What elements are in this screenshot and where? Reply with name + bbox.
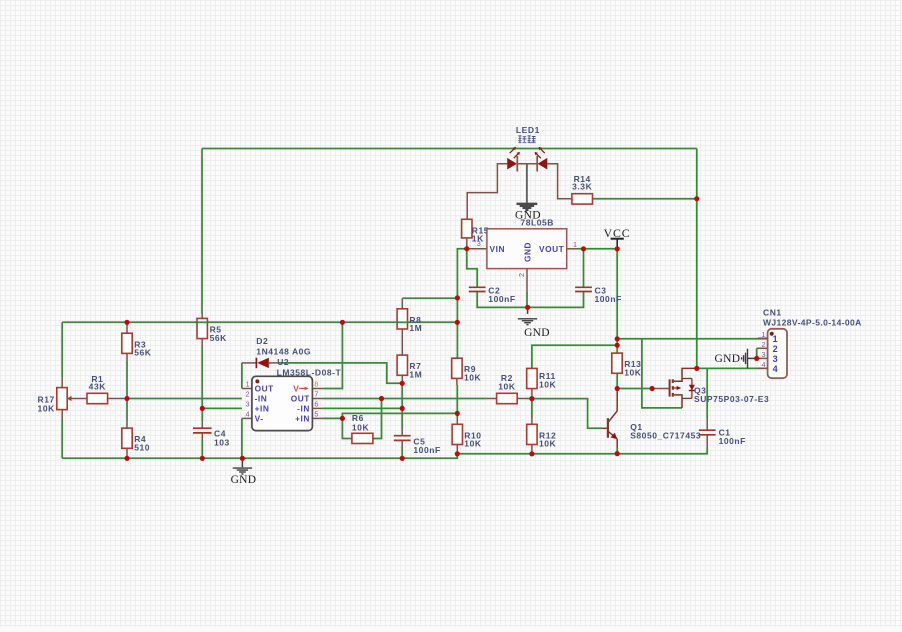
wire: ground stub under U2 (241, 458, 243, 467)
svg-text:VOUT: VOUT (539, 244, 564, 254)
wire: R14 right to loop junction (593, 198, 697, 200)
wire: gate row to Q3 gate (617, 388, 652, 390)
ground symbol under U2 (233, 467, 252, 469)
wire: R7 node down to C5 node (401, 383, 403, 408)
svg-text:1M: 1M (409, 323, 422, 333)
connector CN1 body (768, 329, 787, 378)
svg-text:WJ128V-4P-5.0-14-00A: WJ128V-4P-5.0-14-00A (763, 318, 862, 328)
CN1 pin4 stub (758, 367, 768, 369)
svg-text:VCC: VCC (604, 226, 631, 240)
svg-text:56K: 56K (210, 333, 228, 343)
pin: R1 right pin to node (108, 398, 128, 400)
svg-text:D2: D2 (256, 336, 268, 346)
resistor R13 (612, 353, 622, 373)
svg-text:56K: 56K (134, 348, 152, 358)
svg-text:2: 2 (517, 272, 526, 277)
wire: C1 top from drain row (706, 368, 708, 419)
wire: D2 anode line to R7 bottom node (242, 362, 257, 364)
VCC symbol (611, 238, 624, 240)
wire: U2 pin7 OUT row to R2 (312, 398, 322, 400)
ground symbol under regulator rail (518, 318, 537, 320)
svg-text:10K: 10K (38, 404, 56, 414)
wire: C4 column node down to C4 and rail (201, 408, 203, 421)
resistor R5 (197, 318, 207, 338)
svg-text:3: 3 (477, 239, 482, 248)
svg-text:GND: GND (714, 353, 740, 365)
resistor R7 (397, 355, 407, 375)
svg-text:1: 1 (246, 380, 251, 389)
wire: R8 top to R9 column (401, 298, 403, 309)
resistor R3 (122, 333, 132, 353)
wire: U2 pin4 V- down to ground rail (242, 417, 252, 419)
svg-text:+IN: +IN (295, 413, 310, 423)
svg-text:LED1: LED1 (516, 125, 540, 135)
wire: R6 node jog up and row to R9/R10 node (342, 413, 457, 418)
wire: R15 bottom pin to VIN node (466, 238, 468, 249)
Q3 body diode (682, 378, 692, 380)
svg-text:4: 4 (246, 410, 251, 419)
pin: R1 left pin with wiper arrow to R17 (71, 398, 87, 400)
svg-text:8: 8 (314, 380, 319, 389)
wire: VCC node down to R13 top (616, 345, 618, 353)
wire: U2 pin8 V+ up to top bus (312, 388, 322, 390)
wire: left rail bottom (R17 to bottom rail) (61, 410, 63, 420)
svg-text:-IN: -IN (297, 403, 310, 413)
capacitor C3 (575, 286, 592, 288)
wire: Q1 emitter to bottom rail (616, 439, 618, 448)
wire: bottom rail right segment to C1 (457, 447, 707, 454)
CN1 pin1 stub (758, 337, 768, 339)
resistor R10 (452, 424, 462, 444)
pin: R3 top/bottom pins (126, 322, 128, 333)
resistor R15 (462, 219, 472, 238)
capacitor C4 (193, 427, 212, 429)
resistor R12 (527, 424, 537, 444)
wire: mid row from R1 node to U2 pin2 (127, 398, 242, 400)
wire: VIN node branch to C2 top (467, 249, 477, 288)
wire: R5 bottom to C4 column (201, 339, 203, 345)
svg-text:VIN: VIN (490, 244, 505, 254)
wire: battery loop top (202,148.5)-(696.8,148.5) (202, 148, 697, 150)
resistor R6 (352, 433, 373, 443)
svg-text:5: 5 (314, 410, 319, 419)
LED1 right emission arrows (539, 148, 545, 154)
resistor R11 (527, 368, 537, 388)
svg-text:GND: GND (523, 242, 533, 262)
svg-text:U2: U2 (277, 357, 289, 367)
svg-text:10K: 10K (464, 373, 482, 383)
wire: loop left vertical down to R5 (201, 149, 203, 314)
wire: top bus crossing R5 box (redraw) (196, 321, 210, 323)
svg-text:7: 7 (314, 390, 319, 399)
wire: left rail top (bus to R17) (61, 322, 63, 377)
ground symbol at CN1 (rotated) (747, 349, 749, 368)
svg-text:10K: 10K (464, 439, 482, 449)
wire: VCC rail vertical x=617 (616, 249, 618, 345)
svg-text:GND: GND (231, 474, 257, 486)
resistor R1 (87, 393, 108, 403)
svg-text:103: 103 (214, 437, 230, 447)
pin: U1 VIN pin stub (pin 3) (467, 248, 487, 250)
capacitor C1 (699, 429, 716, 431)
wire: VCC symbol stub (616, 239, 618, 249)
pin: R11 bottom pin (531, 389, 533, 399)
svg-text:2: 2 (773, 344, 779, 354)
wire: LED1 common cathode to GND stub (526, 164, 528, 204)
svg-text:10K: 10K (539, 439, 557, 449)
svg-text:OUT: OUT (291, 393, 310, 403)
capacitor C5 (394, 435, 411, 437)
wire: U2 pin5 row to R6 node (312, 417, 322, 419)
wire: top bus crossing R8 box (redraw) (397, 321, 409, 323)
transistor Q3 SUP75P03 (P-MOSFET) gate bar (669, 379, 671, 396)
svg-text:100nF: 100nF (595, 294, 622, 304)
wire: R6 right leg up to OUT row (373, 399, 382, 439)
svg-text:GND: GND (515, 209, 541, 221)
svg-text:10K: 10K (498, 382, 516, 392)
pin: R8-R7 connecting link (401, 329, 403, 355)
wire: R3 bottom to mid node (126, 361, 128, 399)
svg-text:2: 2 (246, 390, 251, 399)
wire: LED1 right anode to R14 left (547, 164, 572, 199)
capacitor C2 (469, 286, 486, 288)
junction dots (124, 320, 129, 325)
svg-text:10K: 10K (352, 423, 370, 433)
Q3 drain connection (674, 368, 697, 381)
U2 orientation dot (255, 379, 259, 383)
svg-text:V: V (293, 383, 299, 393)
wire: R13 bottom to gate node (616, 373, 618, 388)
voltage regulator U1 78L05B body (487, 229, 567, 269)
svg-text:LM358L-D08-T: LM358L-D08-T (277, 368, 342, 378)
wire: bottom rail left segment (62, 454, 457, 459)
wire: node down to R12, R12 to rail (531, 399, 533, 418)
pin: R2 pins (487, 398, 497, 400)
Q3 channel segments (672, 379, 674, 383)
pin: Q1 collector vertical (616, 389, 618, 411)
resistor R14 (572, 194, 593, 204)
wire: loop right vertical down to Q3 drain node (696, 149, 698, 369)
svg-text:1N4148 A0G: 1N4148 A0G (256, 346, 311, 356)
wire: R6 left leg (342, 418, 352, 438)
pin: CN1 pin2 hook to GND dot (757, 347, 768, 349)
label LED1 chinese value (glyph boxes) (518, 136, 535, 143)
wire: C5 node down through C5 to rail (401, 408, 403, 429)
svg-text:1: 1 (573, 240, 578, 249)
pin: U1 VOUT pin stub (pin 1) and wire to VCC (567, 248, 578, 250)
wire: LED1 left anode to R15 (467, 164, 507, 220)
svg-text:100nF: 100nF (719, 436, 746, 446)
wire: node down to R4, R4 bottom to rail (126, 399, 128, 422)
wire: C2 bottom / GND / C3 bottom rail (477, 292, 583, 308)
svg-text:+IN: +IN (255, 403, 270, 413)
wire: U2 pin1 up to D2 cathode (242, 388, 252, 390)
wire: top supply bus y=322.3 (62, 321, 457, 323)
pin: CN1 pin3 stub (757, 357, 768, 359)
wire: R2/R11 node to Q1 base (532, 399, 602, 429)
svg-text:2: 2 (761, 340, 766, 349)
svg-text:-IN: -IN (255, 393, 268, 403)
svg-text:V-: V- (255, 413, 264, 423)
ground symbol under LED1 (517, 203, 538, 205)
svg-text:3: 3 (773, 354, 779, 364)
wire: C3 top to VOUT row (583, 249, 585, 287)
svg-text:510: 510 (134, 443, 150, 453)
wire: R9/R10 node to R10, R10 to rail (456, 413, 458, 418)
diode D2 1N4148 (255, 358, 257, 369)
svg-text:4: 4 (773, 364, 779, 374)
transistor Q1 S8050 (NPN) (607, 418, 609, 438)
svg-text:100nF: 100nF (488, 294, 515, 304)
svg-text:GND: GND (524, 327, 550, 339)
svg-text:43K: 43K (89, 382, 107, 392)
resistor R4 (122, 428, 132, 448)
pin: R9 bottom to row node (456, 378, 458, 385)
wire: VCC node to CN1 pin1 (617, 338, 758, 340)
op-amp U2 LM358 body (252, 376, 313, 430)
wire: branch down x=641.9 to Q3 source bottom (642, 339, 682, 408)
svg-text:S8050_C717453: S8050_C717453 (630, 431, 701, 441)
svg-text:SUP75P03-07-E3: SUP75P03-07-E3 (694, 394, 769, 404)
svg-text:OUT: OUT (255, 383, 274, 393)
wire: +IN row from C4 node to U2 pin3 (202, 407, 242, 409)
svg-text:CN1: CN1 (763, 308, 782, 318)
CN1 orientation dot (770, 332, 774, 336)
pin: U1 GND pin 2 vertical (526, 269, 528, 292)
svg-text:1: 1 (761, 330, 766, 339)
svg-text:3: 3 (761, 350, 766, 359)
svg-text:10K: 10K (539, 379, 557, 389)
wire: U2 pin6 row to C5 node (312, 407, 322, 409)
resistor R2 (497, 393, 518, 403)
Q3 source connection (674, 395, 682, 408)
wire: VIN node left + long vertical to R9 top (457, 249, 466, 359)
LED1 cathode connector (517, 163, 537, 165)
svg-text:4: 4 (761, 360, 766, 369)
LED1 right diode (538, 158, 548, 170)
LED1 left emission arrows (510, 148, 516, 154)
svg-text:1: 1 (773, 334, 779, 344)
svg-text:6: 6 (314, 400, 319, 409)
svg-text:1M: 1M (409, 370, 422, 380)
svg-text:100nF: 100nF (413, 445, 440, 455)
wire: VCC node to R11 top (532, 345, 617, 368)
Q3 body arrow (673, 387, 679, 389)
wire: ground stub under regulator rail (527, 307, 529, 314)
svg-text:3: 3 (246, 400, 251, 409)
pin: R7 bottom pin to node (401, 376, 403, 384)
resistor R8 (397, 309, 407, 329)
wire: drain node row to CN1 pin4 (697, 367, 758, 369)
potentiometer R17 (57, 388, 67, 410)
svg-text:10K: 10K (624, 368, 642, 378)
wire: right GND symbol stub (748, 357, 757, 359)
resistor R9 (452, 358, 462, 378)
LED1 left diode (507, 158, 517, 170)
svg-text:3.3K: 3.3K (572, 182, 592, 192)
